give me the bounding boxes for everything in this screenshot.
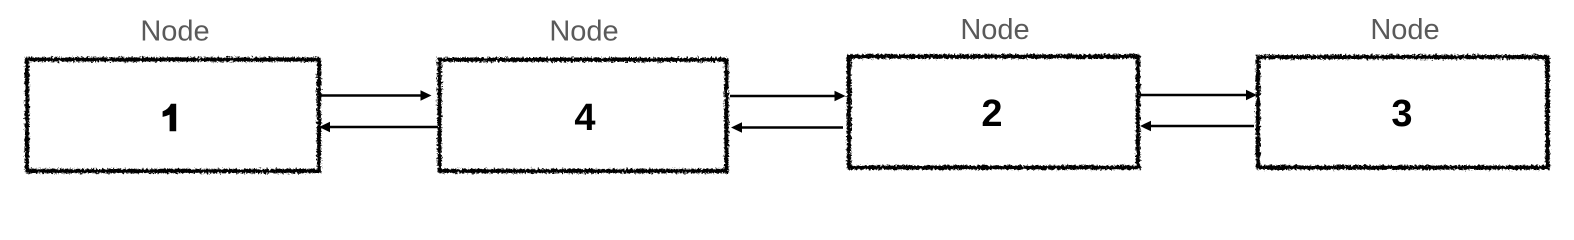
arrow back 2-&gt;1 xyxy=(319,122,438,133)
svg-text:2: 2 xyxy=(981,93,1002,135)
svg-text:4: 4 xyxy=(574,97,595,139)
svg-text:Node: Node xyxy=(549,15,618,47)
svg-text:Node: Node xyxy=(960,14,1029,46)
value 1 xyxy=(163,104,177,131)
arrow forward 2-&gt;3 xyxy=(730,91,846,102)
node box 1 xyxy=(27,60,319,172)
arrow forward 3-&gt;4 xyxy=(1140,90,1257,101)
svg-text:Node: Node xyxy=(1370,14,1439,46)
arrow back 4-&gt;3 xyxy=(1140,121,1254,132)
svg-text:Node: Node xyxy=(140,15,209,47)
svg-text:3: 3 xyxy=(1391,93,1412,135)
node box 3 xyxy=(849,57,1138,168)
node box 2 xyxy=(440,60,727,171)
arrow forward 1-&gt;2 xyxy=(320,90,432,101)
arrow back 3-&gt;2 xyxy=(731,122,843,133)
node box 4 xyxy=(1258,57,1548,168)
